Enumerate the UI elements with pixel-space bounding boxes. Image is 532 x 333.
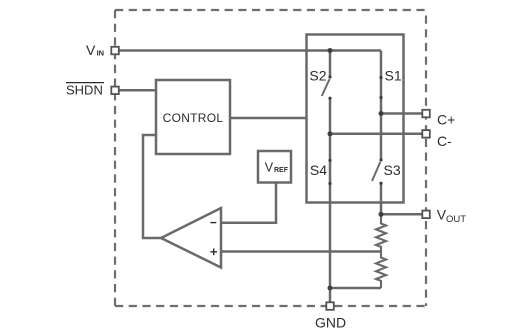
wire S2 bottom to C- node: [329, 98, 332, 134]
svg-text:V: V: [265, 161, 274, 175]
wire S2 branch from VIN node: [329, 51, 332, 77]
wire S3 bottom to VOUT node: [380, 183, 383, 214]
wire C+ node down to S3: [380, 114, 383, 161]
pin SHDN: [111, 87, 119, 95]
svg-text:IN: IN: [97, 48, 105, 57]
svg-text:S2: S2: [309, 68, 326, 84]
wire bottom node to GND pin: [329, 288, 332, 303]
op-amp minus sign: [211, 222, 217, 224]
wire VIN to switch network: [119, 49, 381, 52]
IC boundary dashed box: [115, 10, 426, 306]
junction node GND rail: [328, 286, 333, 291]
op-amp plus sign: [210, 249, 217, 256]
op-amp U1: [161, 208, 221, 268]
junction node VOUT/S3/R1: [379, 212, 384, 217]
wire C- node to C- pin: [330, 133, 422, 136]
pin VOUT: [422, 211, 430, 219]
S1 contact dots: [379, 76, 382, 79]
pin VIN: [111, 47, 119, 55]
svg-text:GND: GND: [315, 315, 346, 331]
VREF block: [258, 151, 291, 183]
switch S3 blade: [372, 162, 380, 181]
wire VOUT node to VOUT pin: [381, 213, 422, 216]
switch S2 blade: [322, 79, 330, 96]
junction node C+/S1: [379, 111, 384, 116]
svg-text:REF: REF: [274, 167, 289, 174]
svg-text:C+: C+: [437, 112, 455, 128]
junction node C-/S2/S4: [328, 131, 333, 136]
switch S4 (closed) wire C- node to bottom node: [329, 134, 332, 288]
label VOUT: [437, 207, 466, 225]
pin C+: [422, 110, 430, 118]
wire op-amp noninverting input to divider midpoint: [221, 250, 381, 253]
resistor R2: [376, 252, 386, 289]
svg-text:CONTROL: CONTROL: [163, 111, 224, 125]
switch S1 (closed) wire VIN corner down to C+ node: [380, 51, 383, 114]
svg-text:S1: S1: [385, 68, 402, 84]
S2 contact dots: [328, 75, 331, 78]
wire CONTROL to switch box: [230, 117, 307, 120]
label VIN: [86, 42, 104, 58]
svg-text:C-: C-: [437, 133, 452, 149]
S4 contact dots: [328, 159, 331, 162]
CONTROL block: [156, 80, 230, 154]
S3 contact dots: [379, 158, 382, 161]
svg-text:SHDN: SHDN: [66, 83, 103, 98]
wire feedback op-amp output to CONTROL: [143, 135, 161, 238]
switch box: [307, 35, 404, 203]
wire SHDN to CONTROL: [119, 89, 156, 92]
pin C-: [422, 130, 430, 138]
svg-text:S3: S3: [384, 162, 401, 178]
wire divider bottom to GND rail: [330, 287, 381, 290]
svg-text:S4: S4: [310, 162, 327, 178]
label VREF: [265, 161, 289, 175]
label SHDN with overline: [66, 83, 104, 98]
wire VREF to op-amp inverting input: [221, 183, 276, 223]
junction node VIN/S2: [328, 48, 333, 53]
svg-text:V: V: [86, 42, 96, 58]
wire C+ node to C+ pin: [381, 112, 422, 115]
pin GND: [326, 302, 334, 310]
svg-text:OUT: OUT: [446, 214, 466, 225]
resistor R1: [376, 214, 386, 251]
